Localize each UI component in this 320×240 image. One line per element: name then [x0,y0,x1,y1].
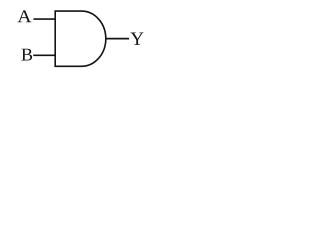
node A label [17,10,31,22]
and-gate U1 [55,11,106,66]
wire A input [33,18,55,20]
node B label [22,49,33,61]
wire B input [33,54,56,56]
node Y label [131,32,144,44]
wire Y output [106,38,129,40]
